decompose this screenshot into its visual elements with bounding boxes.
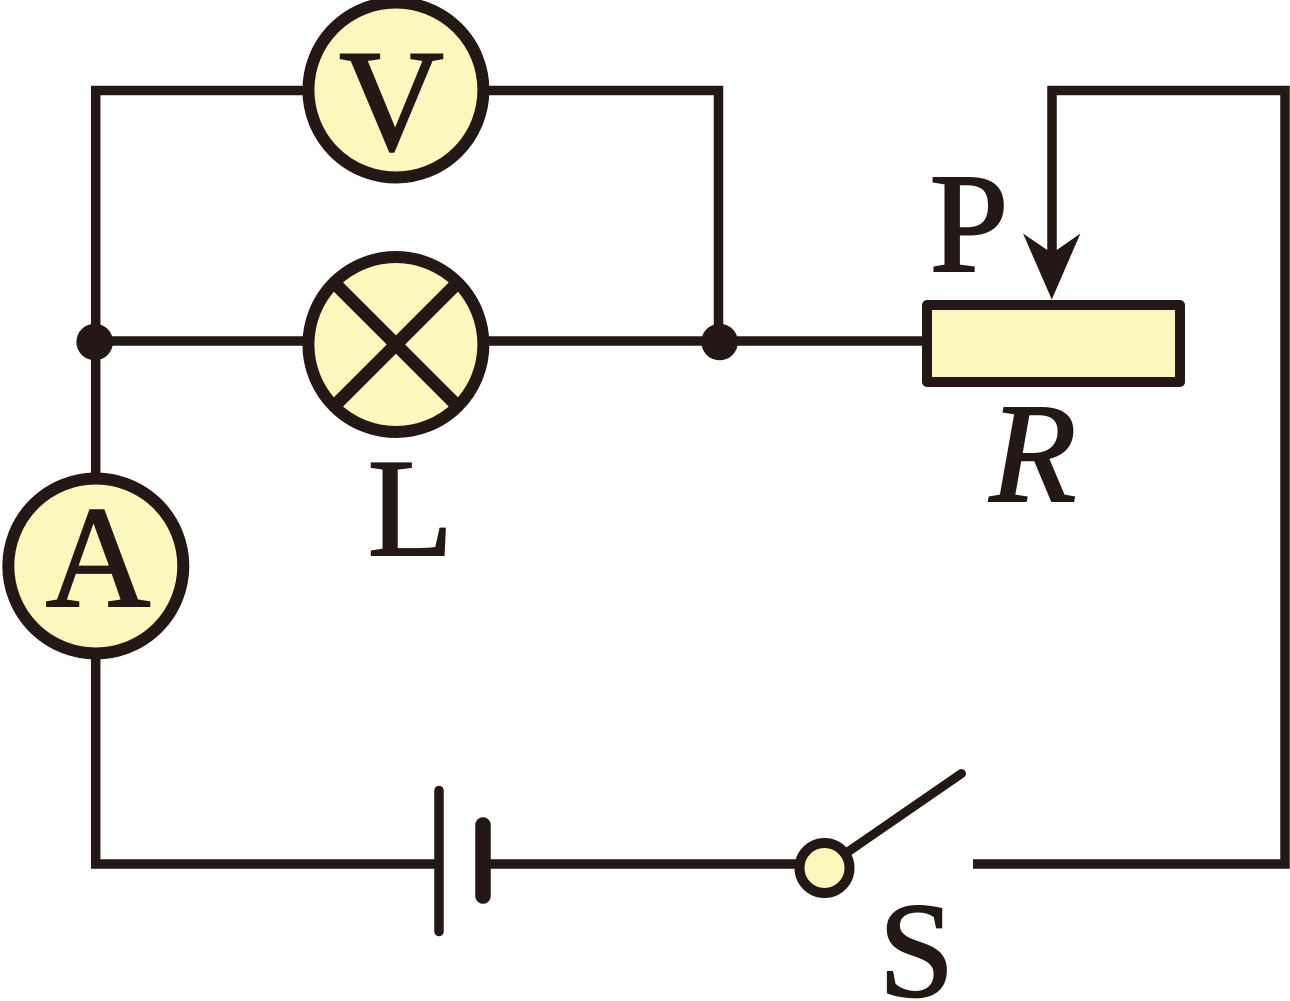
svg-text:V: V: [339, 22, 444, 182]
svg-text:A: A: [46, 478, 151, 638]
svg-text:P: P: [930, 144, 1009, 302]
svg-text:L: L: [368, 431, 454, 586]
svg-text:R: R: [989, 374, 1077, 532]
svg-text:S: S: [879, 876, 955, 1001]
